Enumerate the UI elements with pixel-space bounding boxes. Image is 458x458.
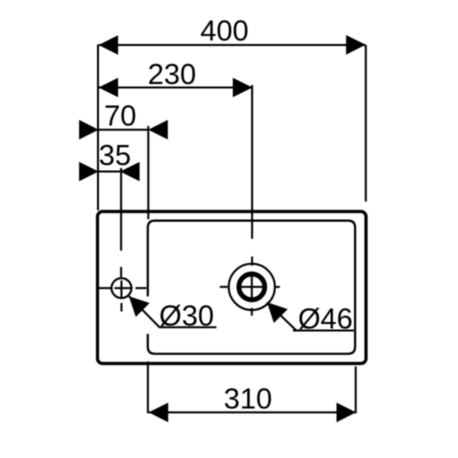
- svg-text:70: 70: [104, 101, 136, 133]
- svg-text:35: 35: [99, 140, 131, 172]
- svg-text:Ø46: Ø46: [298, 304, 353, 336]
- svg-text:310: 310: [224, 384, 272, 416]
- svg-text:400: 400: [200, 16, 248, 48]
- svg-text:Ø30: Ø30: [159, 301, 214, 333]
- svg-text:230: 230: [148, 59, 196, 91]
